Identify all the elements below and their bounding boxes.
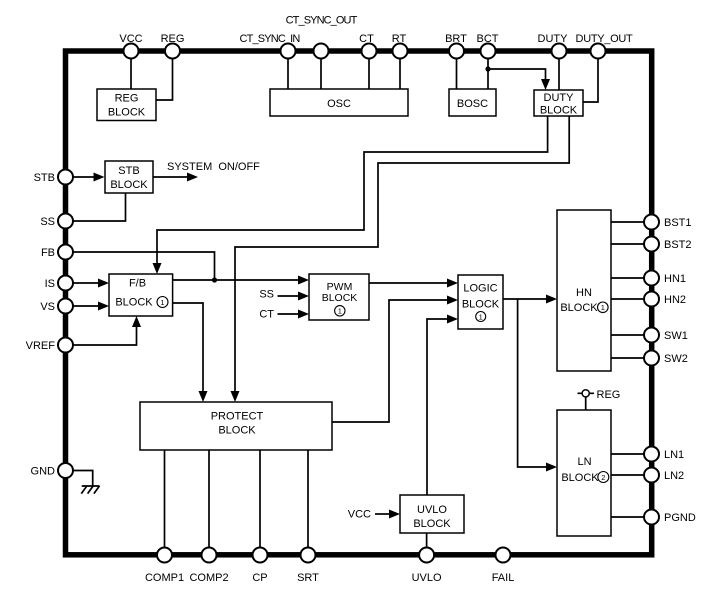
svg-text:BRT: BRT [445, 33, 467, 45]
wire VREF pin to F/B block bottom [73, 316, 141, 345]
block PROTECT BLOCK [140, 402, 332, 450]
svg-text:LN2: LN2 [664, 470, 684, 482]
pin LN1 [644, 447, 659, 462]
pin LN2 [644, 468, 659, 483]
block LOGIC BLOCK 1 [458, 275, 503, 329]
pin PGND [644, 510, 659, 525]
svg-text:BLOCK: BLOCK [561, 472, 599, 484]
svg-text:REG: REG [115, 93, 139, 105]
svg-text:FB: FB [41, 247, 55, 259]
label BCT [477, 33, 499, 45]
svg-text:1: 1 [338, 307, 342, 316]
wire RT pin to OSC [399, 58, 401, 89]
label RT [392, 33, 407, 45]
pin BST2 [644, 237, 659, 252]
svg-text:BLOCK: BLOCK [115, 297, 153, 309]
label BRT [445, 33, 467, 45]
label REG [161, 33, 185, 45]
wire UVLO block to UVLO pin [426, 533, 428, 548]
svg-text:1: 1 [479, 312, 483, 321]
block PWM BLOCK 1 [309, 274, 369, 320]
wire VCC input to UVLO block [375, 510, 400, 519]
label CP [252, 572, 267, 584]
pin HN1 [644, 271, 659, 286]
junction BCT branch [485, 66, 490, 71]
svg-text:RT: RT [392, 33, 407, 45]
wire IS pin to F/B block [73, 279, 109, 288]
svg-text:1: 1 [160, 298, 164, 307]
block BOSC [449, 89, 496, 116]
svg-text:DUTY_OUT: DUTY_OUT [576, 33, 633, 45]
pin BRT [449, 44, 464, 59]
wire REG pin to REG block [156, 58, 173, 100]
label VCC input to UVLO [348, 509, 371, 521]
svg-text:PROTECT: PROTECT [211, 411, 264, 423]
block REG BLOCK [97, 89, 156, 121]
label SS [40, 216, 55, 228]
pin COMP1 [157, 548, 172, 563]
pin REG [165, 44, 180, 59]
svg-text:UVLO: UVLO [417, 504, 447, 516]
wire UVLO block to LOGIC block [427, 315, 458, 496]
svg-text:BLOCK: BLOCK [413, 518, 451, 530]
svg-text:SYSTEM ON/OFF: SYSTEM ON/OFF [167, 161, 260, 173]
wire DUTY pin to DUTY block [558, 58, 560, 90]
block LN BLOCK 2 [557, 410, 611, 536]
svg-text:DUTY: DUTY [538, 33, 569, 45]
wire GND pin to ground symbol [73, 471, 93, 487]
svg-text:BLOCK: BLOCK [540, 105, 578, 117]
svg-text:STB: STB [34, 172, 55, 184]
svg-text:REG: REG [597, 389, 621, 401]
label UVLO [412, 572, 442, 584]
label DUTY_OUT [576, 33, 633, 45]
svg-text:BOSC: BOSC [457, 98, 488, 110]
pin VREF [58, 338, 73, 353]
wire BCT pin to BOSC [487, 58, 489, 89]
pin CT [362, 44, 377, 59]
svg-text:CT: CT [259, 309, 274, 321]
block DUTY BLOCK [534, 90, 583, 117]
label REG at LN block [597, 389, 621, 401]
label HN2 [664, 294, 686, 306]
wire BCT branch to DUTY block [488, 69, 550, 90]
svg-text:PGND: PGND [664, 512, 696, 524]
svg-text:CT_SYNC_OUT: CT_SYNC_OUT [286, 15, 358, 27]
block STB BLOCK [105, 161, 153, 193]
pin IS [58, 276, 73, 291]
pin DUTY [552, 44, 567, 59]
wire SS input to PWM block [278, 292, 310, 301]
pin BCT [481, 44, 496, 59]
wire HN block to HN1 pin [611, 277, 644, 279]
label BST2 [664, 239, 692, 251]
label GND [31, 466, 56, 478]
svg-text:OSC: OSC [327, 98, 351, 110]
svg-text:SS: SS [40, 216, 55, 228]
label DUTY [538, 33, 569, 45]
svg-text:BST1: BST1 [664, 217, 692, 229]
svg-text:VCC: VCC [119, 33, 142, 45]
label LN1 [664, 449, 684, 461]
svg-text:HN2: HN2 [664, 294, 686, 306]
wire CT_SYNC_IN pin to OSC [287, 58, 289, 89]
label CT input [259, 309, 274, 321]
label COMP2 [189, 572, 228, 584]
pin CT_SYNC_IN [281, 44, 296, 59]
pin SW1 [644, 328, 659, 343]
svg-text:BLOCK: BLOCK [462, 299, 500, 311]
pin VS [58, 299, 73, 314]
wire STB block SYSTEM ON/OFF output [153, 173, 198, 182]
pin CT_SYNC_OUT [314, 44, 329, 59]
svg-text:BCT: BCT [477, 33, 499, 45]
label IS [45, 278, 55, 290]
label VCC [119, 33, 142, 45]
wire VCC pin to REG block [130, 58, 132, 89]
wire CT pin to OSC [368, 58, 370, 89]
pin GND [58, 463, 73, 478]
wire DUTY_OUT pin to DUTY block [583, 58, 598, 102]
pin FB [58, 245, 73, 260]
wire F/B block output to PWM block [173, 276, 309, 285]
pin BST1 [644, 215, 659, 230]
wire LN block to LN2 pin [611, 474, 644, 476]
svg-text:LN: LN [577, 456, 591, 468]
label FB [41, 247, 55, 259]
wire HN block to BST1 pin [611, 221, 644, 223]
wire PROTECT block to SRT pin [307, 450, 309, 548]
svg-text:SW2: SW2 [664, 353, 688, 365]
wire PROTECT block to COMP1 pin [164, 450, 166, 548]
svg-text:BLOCK: BLOCK [218, 425, 256, 437]
svg-text:F/B: F/B [129, 278, 146, 290]
wire VS pin to F/B block [73, 302, 109, 311]
svg-text:STB: STB [118, 165, 139, 177]
pin STB [58, 170, 73, 185]
pin VCC [124, 44, 139, 59]
wire HN block to BST2 pin [611, 243, 644, 245]
svg-text:COMP1: COMP1 [145, 572, 184, 584]
block F/B BLOCK 1 [109, 274, 173, 316]
wire CT input to PWM block [278, 310, 310, 319]
label SW1 [664, 330, 688, 342]
junction FB on F/B output [212, 277, 217, 282]
wire LOGIC block to HN block [503, 295, 557, 304]
svg-text:1: 1 [601, 303, 605, 312]
svg-text:SW1: SW1 [664, 330, 688, 342]
wire BRT pin to BOSC [456, 58, 458, 89]
wire DUTY block to PROTECT block top [231, 116, 570, 402]
wire CT_SYNC_OUT pin to OSC [320, 58, 322, 89]
wire FB pin to F/B output node [73, 252, 215, 280]
wire PROTECT block to CP pin [259, 450, 261, 548]
pin DUTY_OUT [591, 44, 606, 59]
svg-text:VCC: VCC [348, 509, 371, 521]
svg-text:CT_SYNC_IN: CT_SYNC_IN [240, 33, 301, 45]
svg-text:BLOCK: BLOCK [110, 179, 148, 191]
pin HN2 [644, 292, 659, 307]
label COMP1 [145, 572, 184, 584]
block HN BLOCK 1 [557, 210, 611, 371]
IC outline (thick boundary) [66, 51, 652, 555]
pin SRT [301, 548, 316, 563]
svg-text:BST2: BST2 [664, 239, 692, 251]
svg-text:BLOCK: BLOCK [560, 302, 598, 314]
pin SS [58, 214, 73, 229]
wire LOGIC output branch to LN block [518, 299, 557, 472]
label CT [359, 33, 374, 45]
svg-text:LN1: LN1 [664, 449, 684, 461]
svg-text:SS: SS [259, 289, 274, 301]
wire DUTY block to F/B block top [153, 116, 548, 274]
wire PWM block to LOGIC block [369, 279, 458, 288]
pin UVLO [419, 548, 434, 563]
svg-text:SRT: SRT [297, 572, 319, 584]
wire F/B block output to PROTECT block top [173, 303, 208, 402]
wire SS pin to STB block [73, 193, 126, 221]
label PGND [664, 512, 696, 524]
svg-text:HN1: HN1 [664, 273, 686, 285]
label SYSTEM ON/OFF [167, 161, 260, 173]
block UVLO BLOCK [400, 495, 464, 533]
svg-text:BLOCK: BLOCK [108, 107, 146, 119]
svg-text:DUTY: DUTY [544, 92, 575, 104]
block OSC [270, 89, 408, 116]
label VREF [26, 340, 56, 352]
pin FAIL [496, 548, 511, 563]
svg-text:IS: IS [45, 278, 55, 290]
svg-text:2: 2 [601, 473, 605, 482]
svg-text:VS: VS [40, 301, 55, 313]
wire HN block to SW1 pin [611, 334, 644, 336]
label SS input [259, 289, 274, 301]
svg-text:COMP2: COMP2 [189, 572, 228, 584]
svg-text:REG: REG [161, 33, 185, 45]
svg-text:HN: HN [576, 287, 592, 299]
label LN2 [664, 470, 684, 482]
svg-text:GND: GND [31, 466, 56, 478]
wire HN block to HN2 pin [611, 298, 644, 300]
svg-text:VREF: VREF [26, 340, 56, 352]
REG supply terminal above LN block [578, 390, 595, 410]
label VS [40, 301, 55, 313]
pin SW2 [644, 351, 659, 366]
svg-text:CP: CP [252, 572, 267, 584]
label SRT [297, 572, 319, 584]
wire PROTECT block to COMP2 pin [208, 450, 210, 548]
wire LN block to PGND pin [611, 516, 644, 518]
svg-text:BLOCK: BLOCK [322, 292, 358, 304]
label BST1 [664, 217, 692, 229]
svg-text:UVLO: UVLO [412, 572, 442, 584]
pin CP [253, 548, 268, 563]
svg-text:CT: CT [359, 33, 374, 45]
pin COMP2 [202, 548, 217, 563]
wire PROTECT block to LOGIC block [332, 296, 458, 423]
svg-text:FAIL: FAIL [492, 572, 515, 584]
wire HN block to SW2 pin [611, 357, 644, 359]
label CT_SYNC_IN [240, 33, 301, 45]
label HN1 [664, 273, 686, 285]
label CT_SYNC_OUT [286, 15, 358, 27]
label SW2 [664, 353, 688, 365]
wire STB pin to STB block [73, 173, 105, 182]
ground symbol [81, 486, 99, 494]
wire LN block to LN1 pin [611, 453, 644, 455]
label FAIL [492, 572, 515, 584]
label STB [34, 172, 55, 184]
svg-text:LOGIC: LOGIC [463, 283, 497, 295]
pin RT [393, 44, 408, 59]
